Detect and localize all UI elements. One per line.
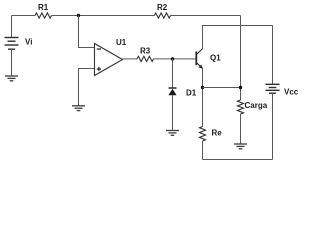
svg-text:Q1: Q1 xyxy=(210,54,221,63)
op-amp minus sign xyxy=(97,48,101,50)
resistor R1 xyxy=(35,13,52,18)
resistor Re xyxy=(200,127,206,142)
ground under D1 xyxy=(166,131,179,136)
wire junction down to diode xyxy=(172,59,174,88)
transistor Q1 xyxy=(196,49,203,69)
svg-text:R3: R3 xyxy=(140,47,151,56)
svg-text:R2: R2 xyxy=(157,3,168,12)
node junction base/diode xyxy=(171,57,174,60)
emitter arrowhead xyxy=(199,65,204,70)
battery Vcc xyxy=(266,84,280,93)
wire top horizontal from R2 to right corner xyxy=(171,15,241,17)
wire from junction down to inverting input xyxy=(79,16,95,48)
battery Vi xyxy=(5,38,19,50)
base bar xyxy=(195,52,197,66)
wire Vcc top lead xyxy=(272,26,274,85)
diode D1 xyxy=(168,88,176,95)
resistor R2 xyxy=(154,13,170,18)
node junction at inverting input feed xyxy=(77,14,80,17)
resistor Carga xyxy=(238,100,244,114)
wire emitter down to Re xyxy=(202,69,204,127)
svg-text:R1: R1 xyxy=(38,3,49,12)
ground under Carga xyxy=(234,144,247,149)
op-amp U1 xyxy=(95,44,123,76)
wire collector up and right to Vcc xyxy=(203,26,273,49)
wire Re bottom to bottom rail xyxy=(202,141,204,160)
svg-text:Vcc: Vcc xyxy=(284,87,299,96)
wire top horizontal from Vi to R1 xyxy=(12,15,36,17)
svg-text:U1: U1 xyxy=(116,38,127,47)
wire Carga bottom to ground xyxy=(240,114,242,144)
wire op-amp output to R3 xyxy=(123,58,138,60)
svg-text:Re: Re xyxy=(212,129,223,138)
wire diode to ground xyxy=(172,95,174,130)
wire vertical Vi bottom lead xyxy=(11,49,13,76)
wire R3 to transistor base xyxy=(154,58,196,60)
wire vertical Vi top lead xyxy=(11,16,13,38)
ground under Vi xyxy=(5,76,18,81)
ground under op-amp non-inverting input xyxy=(72,106,85,111)
wire Vcc bottom lead xyxy=(272,93,274,159)
svg-text:Carga: Carga xyxy=(245,101,268,110)
wire vertical from top wire down to Carga xyxy=(240,16,242,101)
svg-text:D1: D1 xyxy=(186,89,197,98)
wire bottom rail xyxy=(203,159,273,161)
emitter lead xyxy=(196,62,202,68)
collector lead xyxy=(196,49,202,55)
wire top horizontal from R1 to R2 xyxy=(52,15,155,17)
svg-text:Vi: Vi xyxy=(25,37,32,46)
resistor R3 xyxy=(137,56,154,61)
node junction emitter/Re/Carga xyxy=(201,86,204,89)
wire from non-inverting input to ground branch xyxy=(79,69,95,106)
node junction Carga top xyxy=(239,86,242,89)
wire emitter junction to Carga top xyxy=(203,87,241,89)
op-amp plus sign xyxy=(97,67,101,71)
